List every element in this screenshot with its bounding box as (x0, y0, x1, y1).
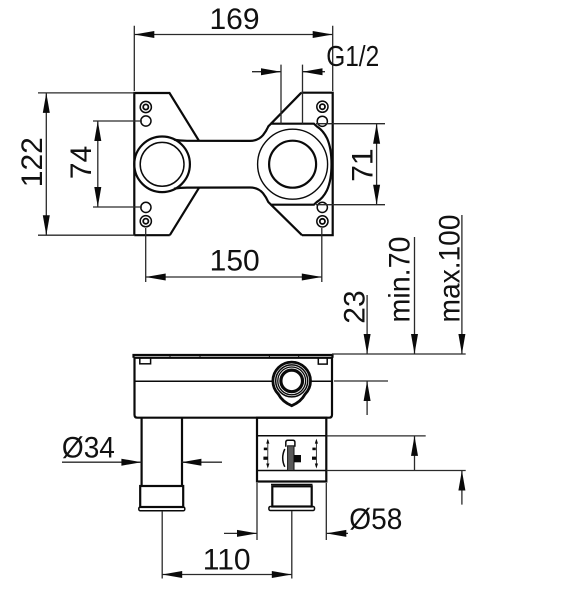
screw hole bottom-left (140, 216, 151, 227)
spout ring mid (278, 367, 306, 395)
dimension 71 (316, 124, 385, 205)
dimension 23 (334, 290, 388, 415)
clip notch right (318, 358, 327, 364)
valve box inner line 1 (257, 435, 326, 437)
spout ring outer (276, 365, 308, 397)
right boss inner circle (269, 141, 316, 188)
right boss middle circle (258, 129, 328, 199)
rail joint tick 4 (298, 355, 300, 358)
dimension 74 (65, 121, 142, 207)
left pipe (142, 418, 182, 486)
dimension max.100 (326, 215, 466, 505)
svg-text:169: 169 (209, 3, 259, 36)
svg-text:Ø34: Ø34 (62, 432, 115, 465)
svg-text:23: 23 (339, 290, 372, 323)
svg-text:G1/2: G1/2 (326, 41, 379, 73)
left pipe lip (139, 507, 185, 511)
svg-text:min.70: min.70 (384, 237, 417, 323)
mounting hole bottom-right (317, 202, 327, 212)
collar top line (271, 484, 313, 486)
valve box (257, 418, 326, 482)
svg-text:max.100: max.100 (434, 215, 467, 323)
dimension 150 (146, 228, 322, 282)
mounting hole top-right (317, 116, 327, 126)
mounting hole bottom-left (141, 202, 151, 212)
left boss inner circle (140, 142, 184, 186)
rail joint tick 2 (199, 355, 201, 358)
mounting rail top line (134, 355, 333, 358)
screw hole top-left (140, 101, 151, 112)
spout teardrop outline (273, 362, 311, 406)
svg-text:122: 122 (16, 137, 49, 187)
svg-text:71: 71 (347, 148, 380, 181)
dimension diameter 34 (62, 432, 222, 466)
dimension 122 (16, 93, 134, 235)
dimension 169 (134, 3, 332, 91)
left pipe coupling (140, 486, 183, 507)
valve box inner line 2 (257, 470, 326, 472)
dimension min.70 (326, 237, 425, 472)
dimension diameter 58 (224, 483, 402, 540)
svg-text:Ø58: Ø58 (349, 503, 402, 536)
cartridge side tab (294, 455, 301, 462)
svg-text:150: 150 (210, 245, 260, 278)
cartridge left bulge (283, 449, 285, 467)
cartridge cap (286, 440, 295, 447)
dimension 110 (162, 511, 292, 579)
adjustment indicator right (312, 439, 318, 469)
body parting line (135, 380, 333, 382)
svg-text:110: 110 (203, 544, 251, 577)
screw hole top-right (317, 101, 328, 112)
spout ring inner thick (281, 370, 303, 392)
collar body (272, 486, 311, 506)
connecting bar and right boss outer contour (174, 124, 332, 205)
adjustment indicator left (263, 439, 269, 469)
clip notch left (140, 358, 151, 364)
dimension G1/2 (252, 41, 379, 124)
body rectangle (135, 358, 333, 418)
cartridge hatched body (288, 446, 294, 471)
mounting plate outline (134, 93, 332, 236)
mounting hole top-left (141, 116, 151, 126)
rail joint tick 1 (169, 355, 171, 358)
wall reference line (332, 353, 466, 355)
left boss outer circle (134, 137, 190, 193)
screw hole bottom-right (317, 216, 328, 227)
svg-text:74: 74 (65, 146, 98, 179)
rail joint tick 3 (268, 355, 270, 358)
collar lip (269, 507, 315, 511)
